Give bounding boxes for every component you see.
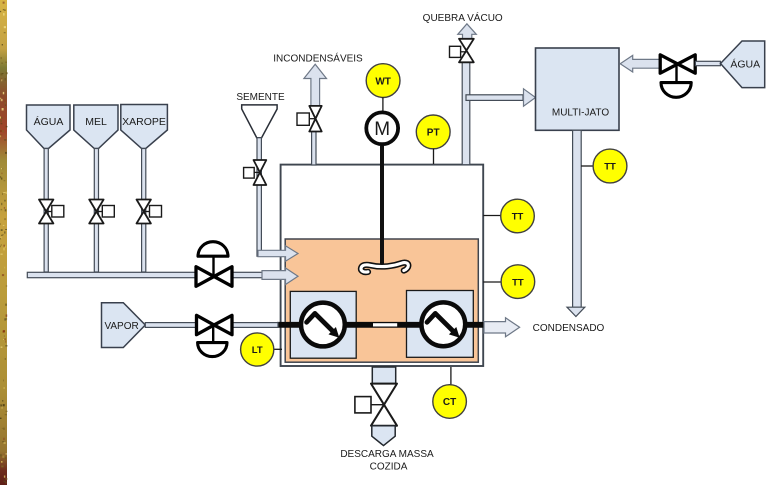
TT instrument bubble (multi-jato): [581, 149, 627, 183]
discharge nozzle: [372, 367, 395, 384]
svg-text:TT: TT: [512, 212, 524, 223]
block arrow head into MULTI-JATO: [524, 89, 536, 106]
heat exchanger box left: [290, 291, 356, 358]
hopper ÁGUA: [27, 105, 71, 149]
VAPOR tank: [102, 303, 146, 348]
svg-text:COZIDA: COZIDA: [370, 462, 408, 473]
funnel SEMENTE: [242, 105, 277, 138]
TT instrument bubble (upper vessel): [483, 199, 534, 233]
svg-text:ÁGUA: ÁGUA: [730, 58, 760, 71]
svg-text:CONDENSADO: CONDENSADO: [533, 323, 605, 334]
valve SEMENTE: [244, 160, 267, 185]
heat exchanger circle left: [301, 303, 345, 347]
tank ÁGUA (right): [721, 41, 765, 88]
manifold pipe: [27, 272, 196, 277]
pipe VAPOR to CV2: [145, 323, 196, 328]
pipe from hopper MEL: [94, 149, 98, 273]
motor M: [366, 112, 398, 144]
control valve CV1 (syrup feed): [196, 242, 232, 287]
pipe valve to ÁGUA tank: [695, 61, 720, 65]
valve V2 (MEL line): [89, 200, 114, 224]
block arrow up INCONDENSÁVEIS: [304, 64, 327, 106]
line WT to motor: [382, 97, 384, 112]
steam line (thick) through exchangers: [277, 322, 487, 328]
agitator shaft: [380, 146, 384, 268]
pipe from hopper ÁGUA: [44, 149, 48, 273]
LT instrument bubble: [241, 333, 282, 366]
hopper MEL: [74, 105, 118, 149]
coupling white gap in steam line: [373, 323, 397, 326]
valve V3 (XAROPE line): [137, 200, 162, 224]
svg-text:DESCARGA MASSA: DESCARGA MASSA: [340, 449, 434, 460]
MULTI-JATO condenser box: [536, 48, 620, 130]
svg-text:ÁGUA: ÁGUA: [34, 115, 64, 128]
line PT to vessel: [433, 149, 435, 165]
arrow head condensate outfall: [567, 307, 585, 316]
svg-text:LT: LT: [252, 345, 263, 356]
svg-text:TT: TT: [512, 277, 524, 288]
block arrow up QUEBRA VÁCUO: [458, 24, 477, 41]
svg-text:VAPOR: VAPOR: [104, 321, 138, 332]
svg-text:CT: CT: [443, 397, 456, 408]
svg-text:M: M: [374, 119, 390, 140]
svg-text:XAROPE: XAROPE: [122, 116, 166, 128]
heat exchanger box right: [407, 291, 474, 358]
heat exchanger circle right: [421, 302, 465, 346]
massa (orange contents): [285, 239, 478, 362]
discharge outlet pentagon: [372, 426, 395, 446]
block arrow SEMENTE into vessel: [258, 246, 298, 261]
impeller: [361, 263, 408, 272]
WT instrument bubble: [366, 64, 400, 98]
block arrow water into MULTI-JATO: [620, 55, 660, 72]
TT instrument bubble (lower vessel): [483, 265, 535, 299]
vessel (vacuum pan): [281, 165, 484, 366]
pipe CV1 to vessel: [232, 272, 286, 277]
pipe INCONDENSÁVEIS: [312, 132, 316, 166]
control valve CV3 (water): [660, 55, 695, 97]
hopper XAROPE: [121, 105, 168, 149]
svg-text:PT: PT: [427, 128, 440, 139]
pipe SEMENTE: [257, 138, 261, 257]
svg-text:QUEBRA VÁCUO: QUEBRA VÁCUO: [423, 11, 503, 24]
svg-text:WT: WT: [375, 76, 391, 87]
pipe from hopper XAROPE: [142, 149, 146, 273]
block arrow feed into vessel (node A): [262, 268, 298, 285]
control valve CV2 (steam): [197, 315, 233, 356]
discharge valve: [355, 384, 397, 426]
valve INCONDENSÁVEIS: [297, 106, 322, 132]
svg-text:SEMENTE: SEMENTE: [236, 92, 285, 103]
pipe QUEBRA VÁCUO (riser): [462, 62, 470, 164]
left photo texture strip: [0, 0, 8, 485]
valve QUEBRA VÁCUO: [450, 39, 474, 63]
pipe MULTI-JATO outlet: [573, 130, 582, 307]
branch pipe to MULTI-JATO: [466, 95, 523, 101]
svg-text:MULTI-JATO: MULTI-JATO: [552, 108, 609, 119]
valve V1 (ÁGUA line): [39, 200, 64, 224]
pipe CV2 to vessel: [232, 323, 278, 328]
svg-text:TT: TT: [604, 162, 616, 173]
PT instrument bubble: [416, 115, 450, 149]
svg-text:INCONDENSÁVEIS: INCONDENSÁVEIS: [273, 52, 363, 65]
svg-text:MEL: MEL: [85, 116, 107, 128]
DESCARGA MASSA COZIDA label: [340, 449, 434, 473]
block arrow condensate out of vessel: [484, 318, 520, 337]
CT instrument bubble: [433, 367, 467, 418]
